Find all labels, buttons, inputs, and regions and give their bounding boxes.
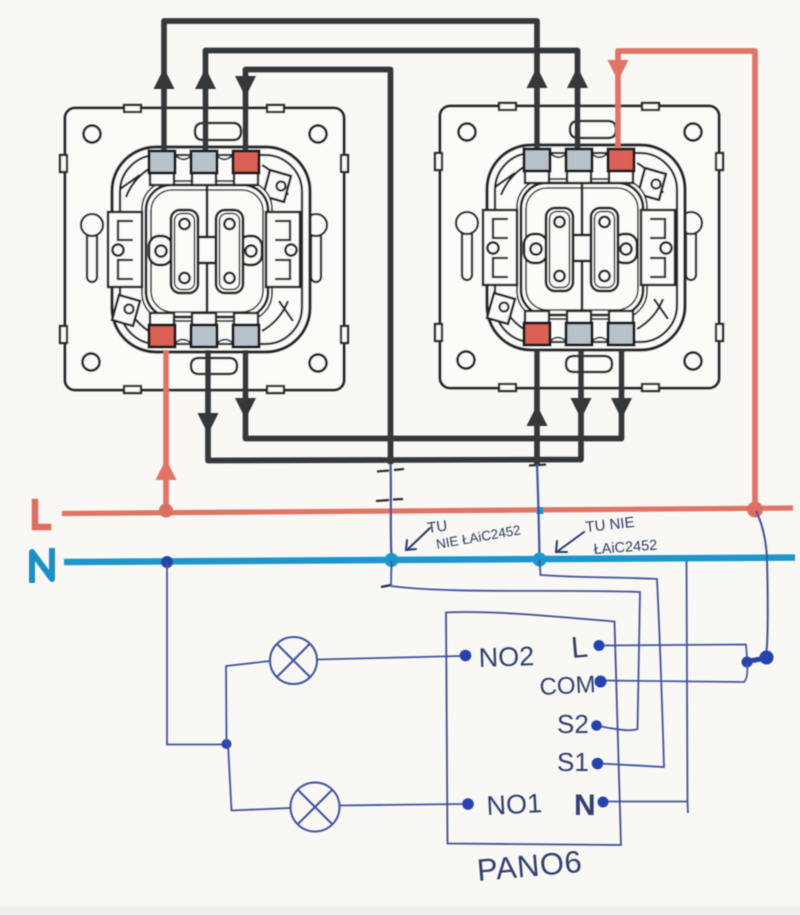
svg-text:S1: S1 bbox=[557, 747, 589, 777]
wire A (S1 bottom-mid to S2 bottom-mid) bbox=[208, 350, 581, 461]
L loop arrowhead bbox=[608, 60, 629, 81]
L bus junction node left bbox=[159, 504, 173, 518]
module terminal S2 bbox=[591, 720, 602, 731]
module terminal NO1 bbox=[462, 798, 474, 810]
pen wire from N bus to N terminal of module bbox=[605, 561, 688, 813]
switch S1 mechanism bbox=[60, 105, 348, 393]
junction blob pair near module bbox=[747, 658, 766, 662]
wire junction to lamp E2 bbox=[228, 744, 290, 811]
L label bbox=[35, 502, 48, 527]
wire T3 (S1 top-right down between switches) bbox=[246, 70, 391, 465]
module terminal N bbox=[598, 797, 609, 808]
svg-text:L: L bbox=[570, 631, 590, 665]
module terminal COM bbox=[595, 676, 607, 688]
pen wire module COM terminal to junction bbox=[602, 663, 747, 682]
wire T2 arrowheads bbox=[195, 68, 216, 89]
pen wire from node2 to S1 terminal of module bbox=[540, 560, 665, 767]
svg-text:NO1: NO1 bbox=[486, 788, 543, 821]
pen wire from node1 to S2 terminal of module bbox=[391, 561, 640, 730]
wire T1 arrowheads bbox=[154, 68, 175, 89]
wire C arrowhead bbox=[527, 405, 548, 426]
N bus tap to lamps bbox=[161, 556, 173, 568]
L phase wire from S1 bottom-left to L bus bbox=[163, 350, 169, 509]
pen wire from L bus node to module L/COM junction bbox=[756, 511, 768, 652]
pen wire module L terminal to junction bbox=[601, 645, 747, 659]
annotation 2 "TU NIE ..." with arrow bbox=[585, 514, 658, 558]
L bus junction node right bbox=[747, 502, 763, 518]
module PANO6 box bbox=[446, 612, 621, 845]
L wire arrowhead bbox=[156, 459, 177, 480]
N bus line bbox=[64, 558, 795, 563]
module terminal S1 bbox=[592, 758, 604, 770]
L phase wire loop to S2 top-right bbox=[618, 51, 755, 507]
lamp E2 bbox=[291, 783, 340, 832]
pen stub from wire T3 to N bus bbox=[391, 464, 392, 559]
N label bbox=[32, 551, 52, 580]
svg-text:NO2: NO2 bbox=[478, 641, 535, 673]
pen stub from wire C to N bus bbox=[537, 464, 540, 559]
wire T3 arrowhead bbox=[235, 76, 256, 97]
wire T2 (S1 top-mid to S2 top-mid) bbox=[206, 51, 578, 151]
wire B arrowheads bbox=[235, 398, 256, 419]
switch S2 mechanism bbox=[435, 103, 723, 391]
lamp E1 bbox=[270, 637, 317, 684]
N bus junction node 2 bbox=[533, 553, 547, 567]
svg-text:N: N bbox=[574, 789, 596, 822]
svg-text:S2: S2 bbox=[557, 709, 589, 739]
annotation 1 "TU NIE ..." with arrow bbox=[426, 517, 522, 552]
module terminal L bbox=[594, 640, 605, 651]
L bus line bbox=[62, 508, 793, 514]
wire junction to lamp E1 bbox=[226, 661, 270, 744]
wire B (S1 bottom-right to S2 bottom-right) bbox=[246, 350, 622, 439]
wire lamp E1 to NO2 bbox=[317, 656, 460, 660]
wire C (S2 bottom-left stub down) bbox=[534, 350, 540, 465]
cut tick marks near node stub x391 bbox=[376, 465, 546, 588]
wire A arrowheads bbox=[198, 413, 219, 434]
N bus junction node 1 bbox=[385, 553, 399, 567]
wire lamp E2 to NO1 bbox=[340, 804, 463, 806]
lamp branch junction bbox=[222, 739, 232, 749]
blue crossing square on L bus bbox=[537, 507, 544, 514]
svg-text:COM: COM bbox=[539, 671, 596, 701]
wire T1 (S1 top-left to S2 top-left) bbox=[164, 21, 537, 150]
module terminal NO2 bbox=[460, 650, 472, 662]
